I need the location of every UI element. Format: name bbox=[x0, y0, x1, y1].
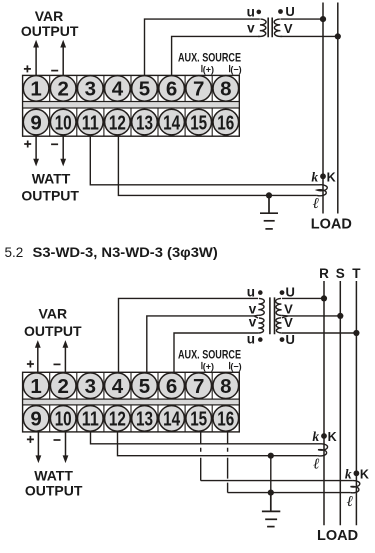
svg-text:8: 8 bbox=[220, 375, 231, 398]
junction dot ground 1 bbox=[266, 192, 272, 198]
polarity dot U top bbox=[280, 290, 285, 295]
polarity + (terminal 9 bottom) bbox=[24, 141, 31, 148]
tick (-) 2 bbox=[229, 362, 231, 369]
svg-text:WATT: WATT bbox=[32, 170, 71, 186]
svg-text:12: 12 bbox=[109, 408, 126, 431]
tick (+) bbox=[201, 65, 203, 72]
CT1 polarity dot k (diagram2) bbox=[321, 433, 327, 439]
terminal 12 bbox=[105, 109, 131, 135]
svg-text:7: 7 bbox=[193, 78, 204, 101]
phase line V (diagram1) bbox=[337, 3, 339, 214]
svg-text:3: 3 bbox=[85, 375, 96, 398]
terminal 14 bbox=[159, 109, 185, 135]
heading 5.2 S3-WD-3, N3-WD-3 (3phi3W) bbox=[5, 245, 218, 260]
polarity + (terminal 9, diagram2) bbox=[27, 436, 34, 443]
terminal 16 (block2) bbox=[213, 406, 239, 432]
svg-text:(+): (+) bbox=[203, 362, 214, 372]
wire terminal5 to PT2 v common bbox=[147, 316, 254, 372]
svg-text:OUTPUT: OUTPUT bbox=[24, 323, 82, 339]
svg-text:1: 1 bbox=[30, 375, 41, 398]
PT2 secondary coil 1 (U-V) bbox=[276, 298, 282, 315]
svg-text:1: 1 bbox=[30, 78, 41, 101]
ground symbol 1 bbox=[260, 195, 278, 229]
svg-text:11: 11 bbox=[82, 408, 99, 431]
CT1 secondary coil (diagram2) bbox=[318, 444, 328, 456]
terminal 2 (block2) bbox=[50, 373, 76, 399]
svg-text:U: U bbox=[286, 285, 295, 300]
arrow WATT - from terminal 10 bbox=[62, 136, 64, 159]
junction dot U bbox=[320, 16, 326, 22]
wire terminal6 to PT2 u bottom bbox=[174, 333, 258, 372]
phase line U (diagram1) bbox=[322, 3, 324, 214]
terminal 8 (block2) bbox=[213, 373, 239, 399]
wire terminal11 to CT1 k (diagram2) bbox=[91, 432, 321, 444]
svg-text:LOAD: LOAD bbox=[317, 528, 358, 544]
terminal 3 (block2) bbox=[78, 373, 104, 399]
terminal block 2 bbox=[23, 372, 240, 432]
terminal 12 (block2) bbox=[105, 406, 131, 432]
arrow WATT + (diagram2) bbox=[37, 432, 39, 456]
fork V common right bbox=[282, 316, 288, 318]
svg-text:ℓ: ℓ bbox=[347, 494, 353, 510]
polarity + (terminal 1 top) bbox=[24, 65, 31, 72]
svg-text:(+): (+) bbox=[203, 64, 214, 74]
terminal 15 (block2) bbox=[186, 406, 212, 432]
wire PT2 U bottom to line T bbox=[282, 332, 357, 334]
terminal 9 bbox=[23, 109, 49, 135]
terminal 15 bbox=[186, 109, 212, 135]
svg-text:(−): (−) bbox=[230, 362, 241, 372]
tick (+) 2 bbox=[201, 362, 203, 369]
PT2 primary coil 2 (v-u) bbox=[258, 318, 264, 333]
svg-text:16: 16 bbox=[217, 408, 234, 431]
junction dot S bbox=[337, 313, 343, 319]
terminal 6 bbox=[159, 76, 185, 102]
wire PT1 U to line U bbox=[280, 18, 323, 20]
terminal 5 bbox=[132, 76, 158, 102]
svg-text:K: K bbox=[360, 468, 369, 482]
svg-text:u: u bbox=[247, 285, 255, 300]
polarity - (terminal 10, diagram2) bbox=[54, 439, 61, 441]
label WATT OUTPUT (diagram1) bbox=[21, 170, 79, 203]
svg-text:6: 6 bbox=[166, 78, 177, 101]
polarity dot U bottom bbox=[280, 337, 285, 342]
svg-text:k: k bbox=[345, 466, 352, 481]
wire PT1 V to line V bbox=[280, 35, 337, 37]
svg-text:v: v bbox=[249, 314, 257, 329]
terminal 11 bbox=[78, 109, 104, 135]
svg-text:8: 8 bbox=[220, 78, 231, 101]
wire terminal4 to PT2 u top bbox=[119, 298, 259, 372]
terminal block 1 bbox=[23, 75, 240, 136]
svg-text:k: k bbox=[311, 169, 318, 184]
wire terminal16 to CT2 l (with crossover breaks) bbox=[228, 432, 351, 493]
terminal 1 (block2) bbox=[23, 373, 49, 399]
terminal 2 bbox=[50, 76, 76, 102]
svg-text:S3-WD-3, N3-WD-3 (3φ3W): S3-WD-3, N3-WD-3 (3φ3W) bbox=[33, 245, 218, 260]
terminal 10 bbox=[50, 109, 76, 135]
ground symbol 2 bbox=[262, 493, 280, 527]
junction dot R bbox=[321, 295, 327, 301]
svg-text:OUTPUT: OUTPUT bbox=[25, 483, 83, 499]
svg-text:5.2: 5.2 bbox=[5, 245, 24, 260]
svg-text:5: 5 bbox=[139, 375, 150, 398]
svg-text:VAR: VAR bbox=[39, 306, 68, 322]
svg-text:ℓ: ℓ bbox=[313, 196, 319, 212]
PT1 primary coil (u-v) bbox=[258, 19, 266, 36]
CT1 polarity dot k bbox=[320, 173, 326, 179]
phase line R bbox=[323, 281, 325, 525]
svg-text:10: 10 bbox=[55, 111, 72, 134]
PT2 secondary coil 2 (V-U) bbox=[276, 318, 282, 333]
polarity + (terminal 1, diagram2) bbox=[27, 361, 34, 368]
terminal 3 bbox=[78, 76, 104, 102]
svg-text:k: k bbox=[312, 429, 319, 444]
polarity dot u bbox=[257, 10, 262, 15]
svg-text:13: 13 bbox=[136, 111, 153, 134]
svg-text:4: 4 bbox=[112, 375, 124, 398]
label VAR OUTPUT (top) bbox=[21, 8, 79, 39]
tick (-) bbox=[229, 65, 231, 72]
svg-text:u: u bbox=[247, 332, 255, 347]
svg-text:15: 15 bbox=[190, 408, 207, 431]
terminal 7 (block2) bbox=[186, 373, 212, 399]
svg-text:10: 10 bbox=[55, 408, 72, 431]
svg-text:4: 4 bbox=[112, 78, 124, 101]
label WATT OUTPUT (diagram2) bbox=[25, 467, 83, 498]
terminal 14 (block2) bbox=[159, 406, 185, 432]
svg-text:V: V bbox=[284, 21, 293, 36]
svg-text:WATT: WATT bbox=[34, 467, 73, 483]
svg-text:T: T bbox=[352, 266, 361, 281]
arrow VAR + (diagram2) bbox=[37, 347, 39, 372]
junction dot l2 (diagram2) bbox=[268, 490, 274, 496]
wire terminal15 to CT2 k (with crossover breaks) bbox=[201, 432, 353, 481]
arrow VAR - (diagram2) bbox=[64, 347, 66, 372]
polarity - (terminal 2, diagram2) bbox=[54, 363, 61, 365]
svg-text:2: 2 bbox=[57, 78, 68, 101]
CT2 polarity dot k bbox=[354, 470, 360, 476]
phase line S bbox=[339, 281, 341, 525]
svg-text:U: U bbox=[285, 4, 294, 19]
junction dot l1 (diagram2) bbox=[268, 453, 274, 459]
junction dot V bbox=[335, 33, 341, 39]
polarity dot u top bbox=[258, 290, 263, 295]
svg-text:16: 16 bbox=[217, 111, 234, 134]
phase line T bbox=[355, 281, 357, 525]
terminal 4 bbox=[105, 76, 131, 102]
svg-text:OUTPUT: OUTPUT bbox=[21, 188, 79, 204]
polarity - (terminal 10 bottom) bbox=[51, 143, 58, 145]
wire terminal6 to PT1 v bbox=[172, 36, 260, 75]
svg-text:K: K bbox=[328, 430, 337, 444]
svg-text:VAR: VAR bbox=[35, 8, 64, 24]
svg-text:v: v bbox=[247, 20, 255, 35]
wire terminal5 to PT1 u bbox=[145, 19, 260, 75]
terminal 13 bbox=[132, 109, 158, 135]
terminal 8 bbox=[213, 76, 239, 102]
terminal 5 (block2) bbox=[132, 373, 158, 399]
wire terminal12 to CT1 l (diagram2) bbox=[118, 432, 318, 456]
svg-text:3: 3 bbox=[85, 78, 96, 101]
arrow VAR + from terminal 1 bbox=[35, 47, 37, 76]
wire PT2 V common to line S bbox=[288, 315, 340, 317]
label VAR OUTPUT (diagram2) bbox=[24, 306, 82, 339]
svg-text:OUTPUT: OUTPUT bbox=[21, 23, 79, 39]
arrow VAR - from terminal 2 bbox=[62, 47, 64, 76]
CT1 secondary coil bbox=[317, 185, 327, 196]
PT2 core bbox=[270, 297, 275, 334]
wire terminal12 to CT1 l bbox=[118, 136, 317, 195]
polarity dot u bottom bbox=[258, 337, 263, 342]
svg-text:14: 14 bbox=[163, 408, 180, 431]
CT2 secondary coil bbox=[350, 481, 359, 493]
wire PT2 U top to line R bbox=[282, 297, 324, 299]
svg-text:ℓ: ℓ bbox=[313, 457, 319, 473]
svg-text:5: 5 bbox=[139, 78, 150, 101]
svg-text:S: S bbox=[336, 266, 345, 281]
ground wire (diagram2) bbox=[270, 456, 272, 493]
svg-text:9: 9 bbox=[30, 111, 41, 134]
PT1 secondary coil (U-V) bbox=[274, 19, 282, 36]
arrow WATT - (diagram2) bbox=[65, 432, 67, 456]
svg-text:LOAD: LOAD bbox=[311, 216, 352, 232]
PT2 primary coil 1 (u-v) bbox=[258, 298, 264, 315]
svg-text:u: u bbox=[247, 4, 255, 19]
polarity dot U bbox=[278, 9, 283, 14]
svg-text:15: 15 bbox=[190, 111, 207, 134]
terminal 10 (block2) bbox=[50, 406, 76, 432]
svg-text:AUX. SOURCE: AUX. SOURCE bbox=[178, 52, 241, 64]
svg-text:13: 13 bbox=[136, 408, 153, 431]
fork v common left bbox=[254, 315, 258, 318]
terminal 6 (block2) bbox=[159, 373, 185, 399]
terminal 4 (block2) bbox=[105, 373, 131, 399]
polarity - (terminal 2 top) bbox=[51, 70, 58, 72]
svg-text:R: R bbox=[319, 266, 329, 281]
PT1 core bbox=[268, 18, 272, 38]
terminal 1 bbox=[23, 76, 49, 102]
svg-text:11: 11 bbox=[82, 111, 99, 134]
terminal 13 (block2) bbox=[132, 406, 158, 432]
svg-text:7: 7 bbox=[193, 375, 204, 398]
terminal 7 bbox=[186, 76, 212, 102]
wire terminal11 to CT1 k bbox=[90, 136, 319, 185]
svg-text:(−): (−) bbox=[230, 64, 241, 74]
svg-text:9: 9 bbox=[30, 408, 41, 431]
terminal 9 (block2) bbox=[23, 406, 49, 432]
junction dot T bbox=[353, 330, 359, 336]
arrow WATT + from terminal 9 bbox=[35, 136, 37, 159]
svg-text:12: 12 bbox=[109, 111, 126, 134]
svg-text:6: 6 bbox=[166, 375, 177, 398]
svg-text:AUX. SOURCE: AUX. SOURCE bbox=[178, 349, 241, 361]
svg-text:14: 14 bbox=[163, 111, 180, 134]
terminal 11 (block2) bbox=[78, 406, 104, 432]
terminal 16 bbox=[213, 109, 239, 135]
svg-text:2: 2 bbox=[57, 375, 68, 398]
svg-text:K: K bbox=[327, 171, 336, 185]
svg-text:U: U bbox=[286, 332, 295, 347]
